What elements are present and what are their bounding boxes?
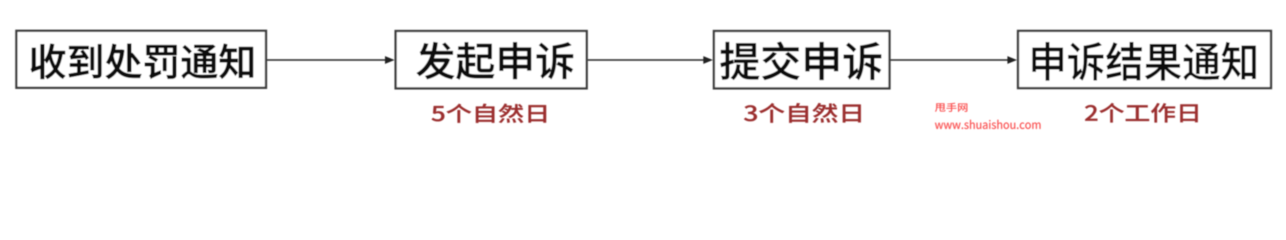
box 3 (提交申诉) [714, 31, 890, 88]
box 3 text: 提交申诉 [720, 42, 881, 80]
box 4 text: 申诉结果通知 [1032, 42, 1255, 81]
box 2 text: 发起申诉 [417, 42, 573, 80]
box 4 (申诉结果通知) [1018, 31, 1271, 88]
label 2个工作日 [1085, 103, 1198, 123]
watermark 甩手网 [935, 103, 967, 112]
arrow 3 (box3→box4) [891, 56, 1018, 64]
box 1 text: 收到处罚通知 [31, 44, 253, 79]
box 2 (发起申诉) [396, 31, 587, 88]
arrow 1 (box1→box2) [267, 56, 395, 64]
label 5个自然日 [432, 104, 546, 123]
arrow 2 (box2→box3) [588, 56, 713, 64]
watermark www.shuaishou.com [935, 120, 1041, 129]
label 3个自然日 [744, 103, 861, 123]
box 1 (收到处罚通知) [16, 31, 266, 88]
